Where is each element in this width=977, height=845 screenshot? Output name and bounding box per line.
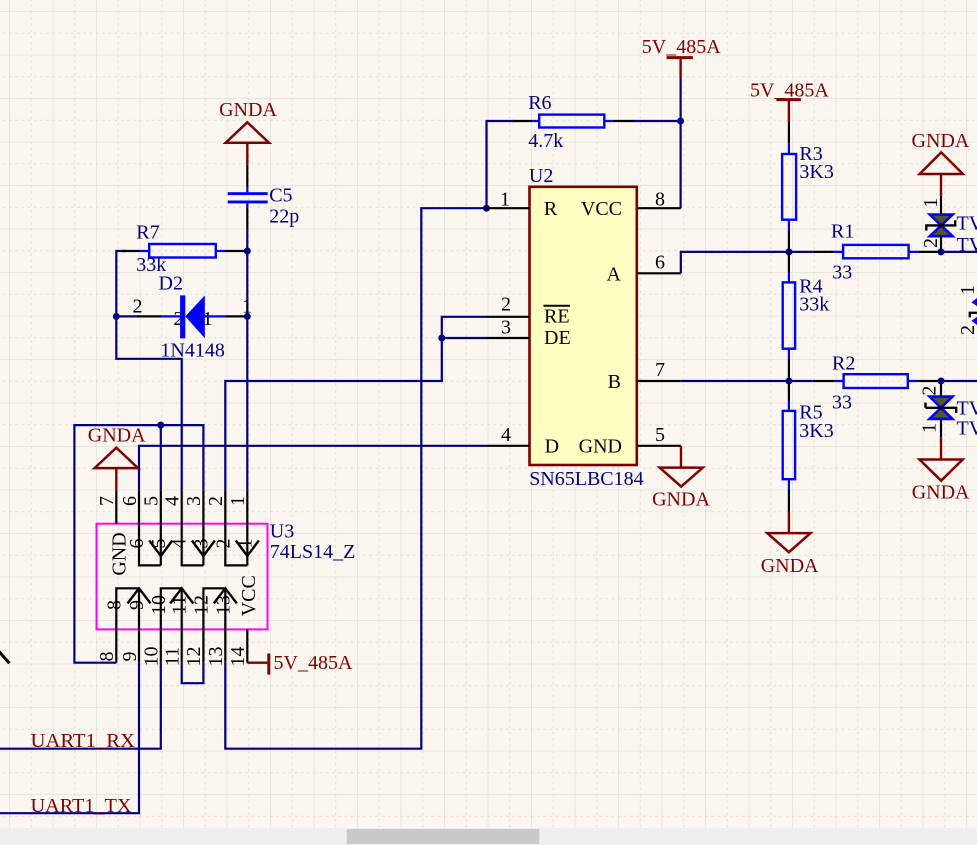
junction dot D2 right [244,313,251,320]
svg-text:R1: R1 [831,221,854,243]
svg-text:GND: GND [579,435,622,457]
junction dot RE/DE [438,335,445,342]
junction dot pin5 net [157,422,164,429]
power port 5V_485A (right rail) [750,79,829,121]
svg-text:13: 13 [212,595,234,615]
GNDA power port (above C5) [219,99,277,164]
svg-text:A: A [607,263,622,285]
IC U3 74LS14_Z body [97,520,356,629]
svg-text:R6: R6 [528,92,551,114]
svg-text:8: 8 [96,652,118,662]
svg-text:SN65LBC184: SN65LBC184 [529,468,643,490]
svg-text:2: 2 [957,325,977,335]
U2 pin 8 VCC [581,189,681,221]
svg-text:R: R [544,198,558,220]
resistor R2 [789,352,941,413]
wire: U3 pins 11-12 loop [182,663,204,684]
svg-text:3: 3 [183,496,205,506]
TVS diode (bottom, on B line) [919,381,977,439]
svg-text:11: 11 [169,595,191,614]
U3 gate 6-5 internal wiring [139,524,161,566]
svg-text:8: 8 [655,189,665,211]
svg-text:33: 33 [832,392,852,414]
svg-text:13: 13 [205,647,227,667]
svg-text:UART1_TX: UART1_TX [31,795,133,817]
svg-text:GNDA: GNDA [761,555,819,577]
junction dot R1/TVS [938,248,945,255]
svg-text:2: 2 [212,539,234,549]
svg-text:10: 10 [141,647,163,667]
GNDA power port (below R5) [761,512,819,578]
svg-text:4.7k: 4.7k [528,130,563,152]
U2 pin 1 R [487,189,558,221]
junction dot B/R4/R5/R2 [785,378,792,385]
wire: R6 left to pin1 junction [487,121,515,208]
junction dot C5/R7 [244,248,251,255]
wire: A net off right edge [941,251,977,253]
svg-text:RE: RE [544,306,570,328]
wire: DE stub to junction [442,337,487,339]
svg-text:6: 6 [126,539,148,549]
IC U2 SN65LBC184 body [529,165,644,490]
svg-text:7: 7 [96,496,118,506]
svg-text:6: 6 [119,496,141,506]
svg-text:5: 5 [655,424,665,446]
svg-text:TVS: TVS [957,417,977,439]
resistor R1 [789,221,941,284]
wire: RE/DE net to U3 pin 2 [225,317,487,490]
svg-text:B: B [608,371,621,393]
junction dot D2 left [113,313,120,320]
U3 bottom pin stubs (pins 8,9,10,11,12,13,14) [116,629,247,662]
svg-text:12: 12 [183,647,205,667]
svg-text:UART1_RX: UART1_RX [31,730,136,752]
svg-text:2: 2 [133,296,143,318]
resistor R3 [782,121,834,252]
svg-text:9: 9 [119,652,141,662]
wire: R6 right to rail junction [633,120,681,122]
wire: UART1_RX to U3 pin 10 [0,663,161,749]
svg-text:2: 2 [919,386,941,396]
svg-text:11: 11 [162,647,184,666]
junction dot R6/rail/pin8 [677,118,684,125]
svg-text:VCC: VCC [581,198,622,220]
power port 5V_485A (top rail above U2) [642,36,721,78]
U2 pin 2 RE [487,294,571,328]
U3 gate 12-13 internal wiring [203,588,225,629]
svg-text:12: 12 [190,595,212,615]
wire: D2 left stub [116,315,138,317]
svg-text:R2: R2 [832,352,855,374]
svg-text:4: 4 [162,496,184,506]
svg-text:4: 4 [169,539,191,549]
svg-text:TVS: TVS [957,212,977,234]
wire: U3 pin 5 tee [160,425,162,490]
svg-text:8: 8 [103,600,125,610]
junction dot A/R3/R4/R1 [785,248,792,255]
svg-text:R7: R7 [136,222,159,244]
svg-text:U3: U3 [270,520,294,542]
svg-text:2: 2 [501,294,511,316]
U3 gate 8-9 internal wiring [116,588,139,629]
svg-text:4: 4 [501,424,511,446]
wire: B net pin7 to R4/R5 junction [681,380,789,382]
GNDA power port (above top TVS) [912,130,970,196]
U2 pin 4 D [487,424,560,457]
diode D2 1N4148 [133,272,253,361]
svg-text:2: 2 [205,496,227,506]
GNDA power port (U2 pin 5) [652,446,710,511]
TVS diode (top, on A line) [920,196,977,256]
svg-text:GNDA: GNDA [88,425,146,447]
U2 pin 5 GND [579,424,681,457]
svg-text:3: 3 [501,317,511,339]
svg-text:GNDA: GNDA [219,99,277,121]
svg-text:GNDA: GNDA [912,130,970,152]
svg-text:5V_485A: 5V_485A [642,36,721,58]
svg-text:GNDA: GNDA [652,488,710,510]
svg-text:6: 6 [655,252,665,274]
wire: U3 pins 5,3 to pin 8 net [74,425,203,663]
svg-text:5: 5 [141,496,163,506]
svg-text:2: 2 [920,238,942,248]
svg-text:1: 1 [227,496,249,506]
clipped TVS at right edge: diode fragments [972,298,977,306]
svg-text:TVS: TVS [957,397,977,419]
svg-text:1: 1 [920,198,942,208]
resistor R5 [783,381,834,512]
resistor R6 [513,92,634,152]
svg-text:10: 10 [148,595,170,615]
U2 pin 6 A [607,252,681,286]
svg-text:DE: DE [544,327,571,349]
U3 gate 4-3 internal wiring [182,524,204,566]
svg-text:3K3: 3K3 [799,161,833,183]
svg-text:5V_485A: 5V_485A [274,652,353,674]
scrollbar thumb [347,829,540,844]
svg-text:22p: 22p [269,205,299,227]
scrollbar track [0,828,977,845]
U2 pin 7 B [608,359,681,393]
U3 top pin stubs (pins 7,6,5,4,3,2,1) [116,490,247,524]
svg-text:1: 1 [500,189,510,211]
wire: A net pin6 to R3/R4 junction [681,252,789,273]
svg-text:33k: 33k [799,294,829,316]
svg-text:C5: C5 [269,185,292,207]
svg-text:1N4148: 1N4148 [160,340,224,362]
svg-text:D: D [545,435,559,457]
wire: R7/D2 left loop down to U3 pin 4 [116,251,181,490]
svg-text:D2: D2 [159,272,183,294]
svg-text:U2: U2 [529,165,553,187]
svg-text:VCC: VCC [238,575,260,616]
U3 gate 2-1 internal wiring [225,524,247,566]
svg-text:1: 1 [919,423,941,433]
svg-text:5V_485A: 5V_485A [750,79,829,101]
svg-text:33: 33 [832,262,852,284]
U2 pin 3 DE [487,317,571,350]
wire: D net pin4 to U3 pin 6 [139,446,487,490]
GNDA power port (below bottom TVS) [912,437,970,503]
junction dot pin1/R6 [483,205,490,212]
power port 5V_485A (U3 pin 14) [247,652,353,674]
svg-text:7: 7 [655,359,665,381]
svg-text:1: 1 [957,285,977,295]
svg-text:14: 14 [227,647,249,667]
U3 gate 10-11 internal wiring [161,588,182,629]
junction dot R2/TVS [938,378,945,385]
wire: C5 down through R7/D2 junctions to U3 pin 1 [246,229,248,491]
svg-text:74LS14_Z: 74LS14_Z [270,541,356,563]
capacitor C5 [228,165,300,229]
GNDA power port (U3 pin 7) [88,425,146,491]
wire: U2 pin1 R-net to U3 pin 13 [225,208,486,749]
clipped component lead at left edge [0,652,9,664]
svg-text:3K3: 3K3 [799,420,833,442]
svg-text:GNDA: GNDA [912,481,970,503]
resistor R4 [783,252,830,381]
wire: 5V rail down to R6/VCC junction and pin 8 [679,78,681,209]
wire: UART1_TX to U3 pin 9 [0,663,139,814]
wire: B net off right edge [941,380,977,382]
resistor R7 [122,222,247,277]
